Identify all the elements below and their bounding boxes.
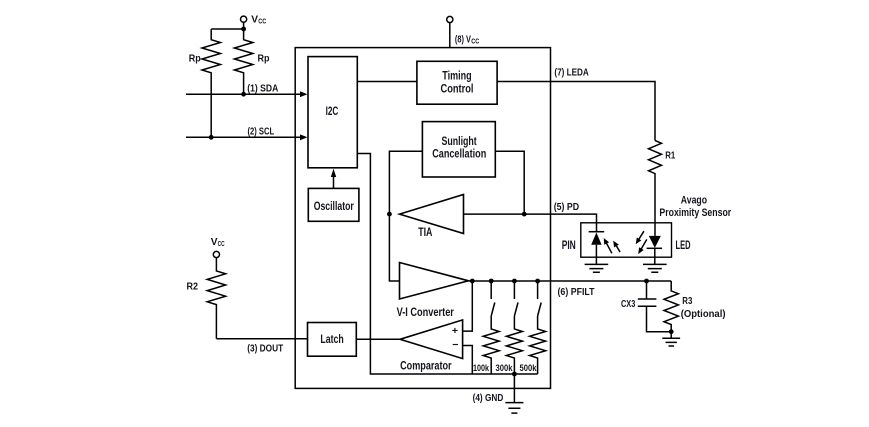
- wire TIA input from PD pin 5: [464, 201, 597, 232]
- I2C block U1: [308, 57, 357, 168]
- svg-text:(3) DOUT: (3) DOUT: [247, 342, 283, 354]
- resistor 500k: [520, 316, 546, 374]
- op-amp V-I Converter: [397, 263, 469, 319]
- wire Timing Control to LEDA pin 7 and out to R1: [497, 67, 655, 141]
- svg-text:−: −: [452, 339, 458, 351]
- svg-text:Rp: Rp: [189, 53, 201, 65]
- svg-text:Rp: Rp: [258, 53, 270, 65]
- svg-text:CC: CC: [258, 16, 267, 25]
- label PFILT pin 6: [558, 286, 595, 298]
- svg-text:R3: R3: [682, 295, 692, 307]
- wire Sunlight Cancellation to PD line: [495, 151, 524, 214]
- resistor 300k: [496, 316, 523, 374]
- svg-text:+: +: [452, 325, 458, 337]
- svg-text:R1: R1: [665, 150, 675, 162]
- junction dot SCL/Rp: [209, 135, 214, 140]
- switch S1: [491, 281, 495, 316]
- switch S2: [514, 281, 518, 316]
- wire Latch to Comparator: [356, 338, 400, 340]
- photodiode PIN: [562, 232, 605, 265]
- svg-text:TIA: TIA: [418, 226, 433, 239]
- capacitor CX3: [621, 281, 671, 332]
- svg-text:(6) PFILT: (6) PFILT: [558, 286, 595, 298]
- svg-text:I2C: I2C: [326, 105, 339, 118]
- svg-text:(Optional): (Optional): [681, 308, 726, 320]
- Latch block: [308, 323, 357, 357]
- wire I2C control to threshold bus: [357, 154, 537, 375]
- light arrows out of LED: [636, 231, 647, 254]
- svg-text:Avago: Avago: [681, 195, 708, 207]
- ground symbol GND pin: [505, 403, 523, 414]
- svg-text:CX3: CX3: [621, 298, 635, 310]
- Vcc terminal (DOUT pull-up): [211, 236, 225, 258]
- svg-text:PIN: PIN: [562, 239, 576, 252]
- wire DOUT line: [216, 339, 307, 355]
- light arrows into PIN: [604, 238, 620, 253]
- svg-text:(4) GND: (4) GND: [473, 392, 504, 404]
- svg-text:Sunlight: Sunlight: [442, 135, 477, 148]
- wire I2C to Timing Control: [357, 81, 417, 83]
- svg-text:300k: 300k: [496, 363, 514, 373]
- arrow Oscillator to I2C: [331, 169, 336, 189]
- junction dot SDA/Rp: [241, 92, 246, 97]
- junction dot comparator feedback tap: [470, 279, 475, 284]
- resistor Rp (right): [234, 29, 269, 94]
- Timing Control block: [417, 61, 497, 104]
- junction dot PFILT/CX3: [644, 279, 649, 284]
- svg-text:LED: LED: [676, 239, 691, 252]
- Vcc terminal (pull-up rail): [241, 14, 267, 26]
- svg-text:Oscillator: Oscillator: [314, 200, 354, 213]
- Sunlight Cancellation block: [422, 122, 495, 177]
- junction dot switch 500k tap: [535, 279, 540, 284]
- Oscillator block: [308, 188, 359, 221]
- junction dot TIA output: [387, 212, 392, 217]
- ground symbol R3: [662, 338, 680, 346]
- svg-text:CC: CC: [218, 239, 225, 248]
- svg-text:Comparator: Comparator: [400, 360, 452, 373]
- svg-text:500k: 500k: [520, 363, 538, 373]
- svg-text:(1) SDA: (1) SDA: [247, 82, 278, 94]
- svg-text:V: V: [211, 236, 218, 248]
- wire Vcc to rail junction: [211, 22, 243, 29]
- wire GND pin 4: [473, 374, 515, 404]
- svg-text:Timing: Timing: [442, 70, 471, 83]
- ground symbol under PIN: [585, 264, 609, 272]
- IC outer boundary box: [295, 48, 550, 389]
- resistor R1: [649, 141, 676, 236]
- wire TIA output feedback (to Sunlight Cancellation and V-I input): [389, 151, 422, 281]
- svg-text:Latch: Latch: [320, 333, 343, 346]
- junction dot switch 100k tap: [489, 279, 494, 284]
- op-amp Comparator: [400, 320, 463, 373]
- junction dot switch 300k tap: [512, 279, 517, 284]
- svg-text:V: V: [251, 14, 258, 26]
- resistor R2: [187, 258, 226, 339]
- resistor R3 (optional): [664, 281, 726, 338]
- proximity sensor module box: [581, 223, 672, 257]
- wire Comparator + input: [463, 281, 473, 331]
- ground symbol under LED: [643, 264, 667, 272]
- svg-text:Cancellation: Cancellation: [432, 147, 486, 160]
- switch S3: [538, 281, 542, 316]
- resistor 100k: [473, 316, 499, 374]
- svg-text:Proximity Sensor: Proximity Sensor: [659, 207, 731, 219]
- Avago Proximity Sensor labels: [659, 195, 731, 219]
- junction dot PD line: [522, 212, 527, 217]
- junction dot R3/CX3: [669, 329, 674, 334]
- svg-text:V-I Converter: V-I Converter: [397, 306, 455, 319]
- junction dot at Vcc rail: [241, 27, 246, 32]
- wire SDA line: [186, 82, 307, 97]
- LED D1: [647, 236, 691, 265]
- junction dot GND tap: [512, 372, 517, 377]
- wire Comparator - input: [463, 346, 473, 375]
- svg-text:100k: 100k: [473, 363, 490, 373]
- svg-text:Control: Control: [441, 82, 474, 95]
- svg-text:CC: CC: [471, 36, 480, 45]
- svg-text:(2) SCL: (2) SCL: [248, 125, 275, 137]
- svg-text:(7) LEDA: (7) LEDA: [554, 67, 589, 79]
- op-amp TIA: [400, 195, 464, 239]
- Vcc terminal pin 8: [447, 16, 480, 47]
- wire SCL line: [186, 125, 307, 140]
- svg-text:(5) PD: (5) PD: [554, 201, 580, 213]
- resistor Rp (left): [189, 29, 221, 137]
- svg-text:(8) V: (8) V: [455, 34, 471, 46]
- wire V-I output to PFILT pin 6: [469, 280, 672, 282]
- svg-text:R2: R2: [187, 281, 199, 293]
